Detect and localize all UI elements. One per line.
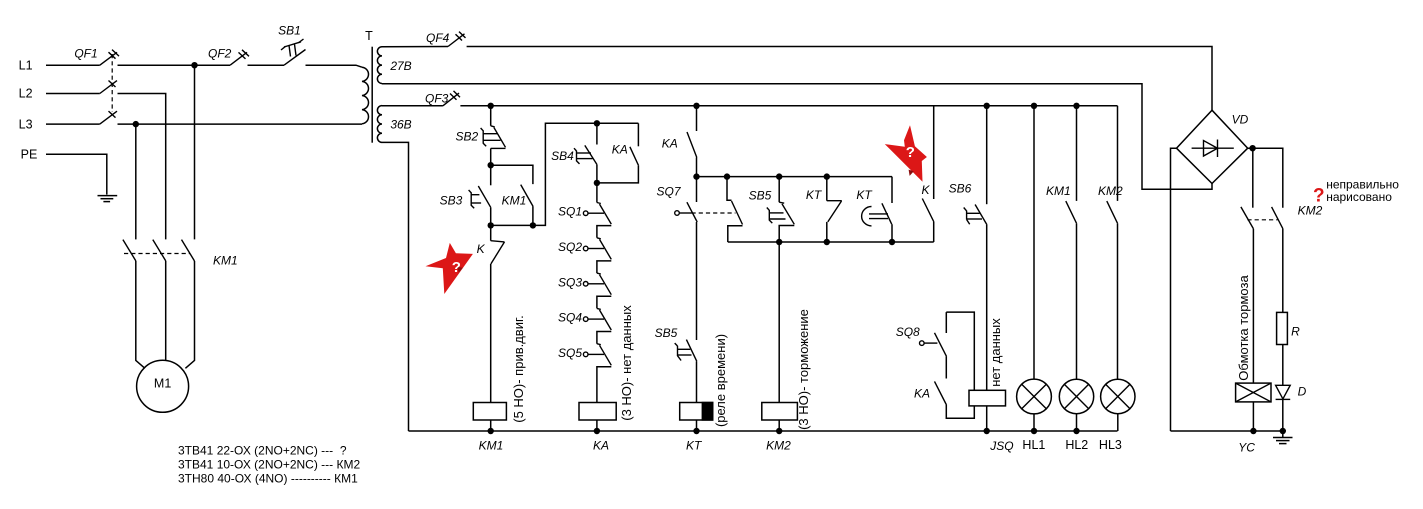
wire KM2 left pole down bbox=[1252, 229, 1254, 383]
svg-text:KM1: KM1 bbox=[213, 253, 238, 267]
node YC rail left bbox=[1250, 428, 1256, 434]
wire 27V rail to rectifier bbox=[467, 47, 1212, 111]
node sub rail KT2 bbox=[889, 239, 895, 245]
breaker QF3 bbox=[425, 91, 460, 106]
svg-text:SQ4: SQ4 bbox=[558, 311, 582, 325]
wire coil KT to rail bbox=[696, 420, 698, 431]
svg-text:(реле времени): (реле времени) bbox=[713, 334, 728, 427]
wire coil JSQ to rail bbox=[986, 406, 988, 431]
svg-text:Обмотка тормоза: Обмотка тормоза bbox=[1236, 275, 1251, 381]
node SB2-SB3 bbox=[488, 162, 494, 168]
wire HL1 branch bbox=[1033, 106, 1035, 379]
svg-text:KA: KA bbox=[914, 386, 930, 400]
svg-text:L2: L2 bbox=[19, 87, 33, 101]
svg-text:3ТВ41 10-ОХ (2NO+2NC) --- КМ2: 3ТВ41 10-ОХ (2NO+2NC) --- КМ2 bbox=[178, 458, 360, 472]
svg-text:?: ? bbox=[906, 144, 915, 161]
annotation nepravilno narisovano bbox=[1313, 177, 1399, 206]
contact K (right, questioned) bbox=[921, 106, 933, 242]
svg-text:SB3: SB3 bbox=[440, 193, 463, 207]
motor M1 bbox=[137, 360, 189, 412]
svg-text:R: R bbox=[1291, 325, 1300, 339]
contact KA parallel SB4 bbox=[597, 123, 639, 183]
svg-text:QF1: QF1 bbox=[74, 47, 97, 61]
lamp HL2 bbox=[1059, 379, 1093, 452]
node bus-KA bbox=[693, 103, 699, 109]
node sub rail KT bbox=[824, 239, 830, 245]
coil KM2 bbox=[762, 403, 798, 453]
node coil KM1 rail bbox=[488, 428, 494, 434]
node row KT bbox=[824, 173, 830, 179]
limit switch SQ2 bbox=[558, 238, 611, 273]
svg-text:HL2: HL2 bbox=[1065, 438, 1088, 452]
wire YC bottom rail bbox=[1171, 430, 1283, 432]
wire L2 bbox=[46, 93, 100, 95]
svg-text:(3 НО)- нет данных: (3 НО)- нет данных bbox=[619, 305, 634, 421]
svg-text:JSQ: JSQ bbox=[989, 439, 1013, 453]
lamp HL1 bbox=[1017, 379, 1052, 452]
red arrow 1 (at contact K left) bbox=[426, 243, 473, 294]
limit switch SQ5 bbox=[558, 344, 611, 403]
contact KA (rung KT) bbox=[662, 106, 697, 177]
svg-text:?: ? bbox=[1313, 186, 1325, 207]
wire node row to SB4 rung riser bbox=[491, 123, 639, 225]
svg-text:KA: KA bbox=[662, 136, 678, 150]
limit switch SQ1 bbox=[558, 183, 611, 238]
node junction L3 bbox=[133, 121, 139, 127]
wire SQ8 frame left bbox=[945, 312, 947, 333]
pushbutton SB2 bbox=[455, 126, 505, 149]
limit switch SQ3 bbox=[558, 273, 611, 308]
rectifier bridge VD bbox=[1177, 110, 1249, 183]
svg-text:SB2: SB2 bbox=[455, 130, 478, 144]
svg-text:D: D bbox=[1298, 385, 1307, 399]
wire L2 after QF1 bbox=[118, 94, 166, 240]
node row KT rung bbox=[693, 173, 699, 179]
wire QF2 to SB1 bbox=[248, 64, 285, 66]
node row SQ7b bbox=[724, 173, 730, 179]
wire SB1 to transformer primary bbox=[306, 65, 363, 67]
node row SB5 bbox=[776, 173, 782, 179]
contact KM1 (lamp HL2) bbox=[1046, 106, 1077, 224]
svg-text:T: T bbox=[365, 29, 373, 43]
wire sub rail bbox=[728, 241, 934, 243]
svg-text:SQ1: SQ1 bbox=[558, 205, 582, 219]
wire bottom rail bbox=[409, 430, 1118, 432]
wire KM2 to HL3 bbox=[1117, 224, 1119, 380]
contact KM1 aux bbox=[502, 185, 533, 226]
limit switch SQ4 bbox=[558, 308, 611, 343]
wire coil KM1 to rail bbox=[490, 420, 492, 431]
svg-text:PE: PE bbox=[21, 148, 38, 162]
wire sub rail to coil KM2 bbox=[778, 242, 780, 403]
node coil JSQ rail bbox=[984, 428, 990, 434]
svg-text:SB4: SB4 bbox=[551, 149, 574, 163]
svg-text:KM2: KM2 bbox=[766, 439, 791, 453]
node L2 bbox=[19, 87, 33, 101]
svg-text:KM1: KM1 bbox=[1046, 184, 1071, 198]
transformer T primary winding bbox=[362, 29, 373, 124]
pushbutton SB3 bbox=[440, 165, 491, 208]
node bus-HL2 bbox=[1073, 103, 1079, 109]
lamp HL3 bbox=[1099, 379, 1135, 452]
node bus-SB6 bbox=[984, 103, 990, 109]
pushbutton SB6 bbox=[949, 106, 987, 225]
contactor KM1 main contacts bbox=[123, 240, 238, 268]
transformer core bbox=[371, 47, 373, 143]
svg-text:SB1: SB1 bbox=[278, 24, 301, 38]
svg-text:SQ8: SQ8 bbox=[896, 325, 920, 339]
limit switch SQ8 bbox=[896, 325, 947, 357]
wire SB4 to node bbox=[596, 165, 598, 183]
svg-text:(3 НО)- торможение: (3 НО)- торможение bbox=[796, 309, 811, 430]
svg-text:KT: KT bbox=[856, 188, 873, 202]
svg-text:KT: KT bbox=[806, 188, 823, 202]
svg-text:KA: KA bbox=[612, 143, 628, 157]
node PE bbox=[21, 148, 38, 162]
node coil KA rail bbox=[594, 428, 600, 434]
wire 27V bottom rail bbox=[382, 84, 1212, 190]
svg-text:36В: 36В bbox=[390, 118, 411, 132]
svg-text:L1: L1 bbox=[19, 58, 33, 72]
wire SQ8 to KA bbox=[945, 356, 947, 378]
limit switch SQ7 contact a bbox=[656, 177, 735, 222]
svg-text:M1: M1 bbox=[154, 377, 171, 391]
wire 27V top to QF4 bbox=[382, 46, 448, 48]
svg-text:SB6: SB6 bbox=[949, 182, 972, 196]
red arrow 2 (at contact K right) bbox=[885, 125, 927, 182]
svg-text:(5 НО)- прив.двиг.: (5 НО)- прив.двиг. bbox=[511, 315, 526, 423]
wire 36V bottom to bottom rail bbox=[382, 142, 409, 431]
node bridge right vertex bbox=[1249, 145, 1255, 151]
node sub rail KM2 bbox=[776, 239, 782, 245]
wire 36V top to QF3 bbox=[382, 105, 443, 107]
svg-text:HL1: HL1 bbox=[1022, 438, 1045, 452]
wire node row bbox=[697, 176, 893, 178]
wire L1 node down bbox=[194, 65, 196, 239]
wire L1 after QF1 bbox=[118, 64, 231, 66]
wire diode to rail bbox=[1282, 399, 1284, 431]
pushbutton SB4 bbox=[551, 123, 597, 165]
node YC rail right bbox=[1280, 428, 1286, 434]
svg-text:SB5: SB5 bbox=[655, 326, 678, 340]
wire KM1 to HL2 bbox=[1076, 224, 1078, 380]
svg-text:K: K bbox=[477, 242, 486, 256]
wire SQ8 frame top bbox=[946, 312, 974, 390]
coil JSQ bbox=[969, 390, 1014, 453]
svg-text:SQ3: SQ3 bbox=[558, 275, 582, 289]
svg-text:QF2: QF2 bbox=[208, 47, 232, 61]
pushbutton SB5 (KT line) bbox=[655, 222, 697, 361]
node HL1 rail bbox=[1031, 428, 1037, 434]
transformer secondary 36V winding bbox=[377, 106, 411, 143]
coil KM1 bbox=[473, 403, 506, 453]
node bus-HL1 bbox=[1031, 103, 1037, 109]
wire SB5 to coil KT bbox=[696, 361, 698, 402]
node below SB3 bbox=[488, 222, 494, 228]
circuit breaker QF1 bbox=[74, 47, 119, 124]
breaker QF4 bbox=[426, 31, 465, 46]
svg-text:SQ7: SQ7 bbox=[656, 184, 681, 198]
svg-text:QF4: QF4 bbox=[426, 31, 450, 45]
svg-text:K: K bbox=[921, 183, 930, 197]
wire KM1 poles to motor bbox=[136, 261, 145, 368]
ground PE bbox=[98, 196, 118, 202]
wire coil KM2 to rail bbox=[778, 420, 780, 431]
node coil KM2 rail bbox=[776, 428, 782, 434]
wire PE bbox=[46, 154, 107, 194]
wire HL3 to rail bbox=[1117, 414, 1119, 431]
svg-text:KA: KA bbox=[593, 439, 609, 453]
wire HL2 to rail bbox=[1076, 414, 1078, 431]
pushbutton SB1 bbox=[278, 24, 305, 66]
svg-text:YC: YC bbox=[1238, 440, 1255, 454]
wire node to KM1 aux branch bbox=[491, 165, 533, 184]
wire SB2 to node bbox=[490, 148, 492, 165]
node L1 bbox=[19, 58, 33, 72]
coil KA bbox=[579, 403, 616, 453]
node HL2 rail bbox=[1073, 428, 1079, 434]
svg-text:3ТН80 40-ОХ (4NO) ---------- К: 3ТН80 40-ОХ (4NO) ---------- КМ1 bbox=[178, 472, 358, 486]
node L3 bbox=[19, 117, 33, 131]
contact KT delayed bbox=[856, 177, 892, 242]
transformer secondary 27V winding bbox=[377, 47, 411, 84]
node SB4 top bbox=[594, 120, 600, 126]
svg-text:KM1: KM1 bbox=[479, 439, 504, 453]
contact KM2 (brake, questioned) bbox=[1241, 204, 1323, 229]
resistor R bbox=[1277, 312, 1300, 344]
wire 36V control bus bbox=[460, 105, 1117, 107]
diode D bbox=[1276, 385, 1307, 400]
svg-text:KM1: KM1 bbox=[502, 194, 527, 208]
pushbutton SB5 (parallel branch) bbox=[749, 177, 795, 242]
node bus-SB2 bbox=[488, 103, 494, 109]
ground YC bbox=[1273, 431, 1293, 444]
node coil KT rail bbox=[693, 428, 699, 434]
svg-text:L3: L3 bbox=[19, 117, 33, 131]
coil KT (time relay) bbox=[680, 403, 713, 453]
svg-text:KM2: KM2 bbox=[1098, 184, 1123, 198]
contact K (left, questioned) bbox=[477, 225, 505, 264]
wire winding to rail bbox=[1252, 402, 1254, 431]
svg-text:SQ5: SQ5 bbox=[558, 346, 582, 360]
svg-text:27В: 27В bbox=[389, 59, 411, 73]
node SB4 bottom bbox=[594, 180, 600, 186]
limit switch SQ7 contact b bbox=[727, 177, 743, 242]
svg-text:нарисовано: нарисовано bbox=[1326, 190, 1392, 204]
node junction L1 bbox=[191, 62, 197, 68]
wire L1 to QF1 bbox=[46, 64, 100, 66]
wire bridge to KM2 contacts bbox=[1248, 148, 1283, 208]
node KM1 aux bottom bbox=[530, 222, 536, 228]
svg-text:нет данных: нет данных bbox=[988, 318, 1003, 387]
wire L3 bbox=[46, 123, 100, 125]
svg-text:SQ2: SQ2 bbox=[558, 240, 582, 254]
wire K to coil KM1 bbox=[490, 264, 492, 403]
svg-text:?: ? bbox=[452, 259, 461, 276]
wire KM2 right pole down bbox=[1282, 229, 1284, 313]
contact KA (JSQ branch) bbox=[914, 381, 974, 418]
wire bridge left vertex down bbox=[1171, 148, 1177, 431]
svg-text:HL3: HL3 bbox=[1099, 438, 1122, 452]
svg-text:3ТВ41 22-ОХ (2NO+2NC) --- ?: 3ТВ41 22-ОХ (2NO+2NC) --- ? bbox=[178, 443, 347, 457]
wire SB6 to coil JSQ bbox=[986, 225, 988, 390]
wire L3 after QF1 to transformer bbox=[118, 123, 363, 125]
brake winding YC bbox=[1236, 383, 1271, 454]
wire HL1 to rail bbox=[1033, 414, 1035, 431]
text block component list bbox=[178, 443, 360, 485]
wire coil KA to rail bbox=[596, 420, 598, 431]
wire SB3 to node bbox=[490, 208, 492, 226]
svg-text:SB5: SB5 bbox=[749, 189, 772, 203]
contact KM2 (lamp HL3) bbox=[1098, 106, 1123, 224]
wire L3 node down bbox=[135, 124, 137, 239]
wire bus down to SB2 bbox=[490, 106, 492, 126]
wire R to diode bbox=[1282, 345, 1284, 386]
contact KT NC bbox=[806, 177, 842, 242]
breaker QF2 bbox=[208, 47, 249, 66]
svg-text:KT: KT bbox=[686, 439, 703, 453]
svg-text:VD: VD bbox=[1232, 113, 1249, 127]
